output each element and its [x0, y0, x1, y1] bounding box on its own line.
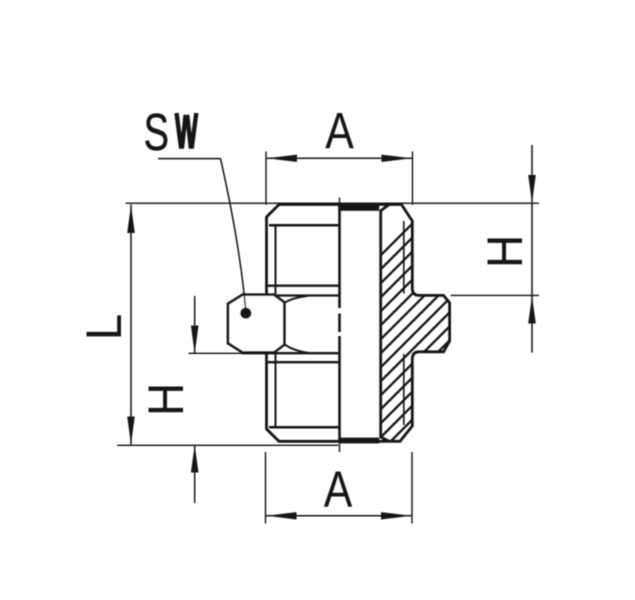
leader line from SW label [158, 159, 246, 311]
dimension H right: mid line [531, 204, 533, 296]
dimension A bottom: left arrow [266, 512, 296, 519]
dimension A bottom: right arrow [381, 512, 411, 519]
extension tick for H (y=353.3) [189, 352, 246, 354]
label SW [144, 103, 197, 161]
thick thread band bottom [339, 438, 379, 444]
inner hex corner vertical lower [275, 354, 277, 427]
thread minor line lower right [403, 354, 405, 425]
dimension A top: extension lines [265, 152, 267, 206]
svg-text:L: L [77, 314, 132, 340]
dimension H right: arm-top extension line [451, 294, 540, 296]
hatching of section [116, 190, 635, 520]
cone line upper outer [267, 285, 340, 287]
dimension H bottom-left: lower arrow and shaft [191, 445, 199, 473]
leader dot on SW boss [240, 308, 251, 319]
svg-text:A: A [325, 102, 354, 159]
inner hex corner vertical upper [275, 226, 277, 294]
dimension A top: right arrow [382, 155, 412, 162]
hex flat line upper [269, 224, 340, 227]
dimension H right: upper shaft and arrow [531, 145, 533, 204]
body outline (hex fitting with right stud arm) [267, 205, 450, 442]
dimension L: bottom arrow [127, 417, 135, 445]
thread minor line upper right [403, 221, 405, 294]
svg-text:H: H [478, 235, 533, 268]
section left boundary [381, 205, 389, 442]
svg-text:S: S [144, 103, 169, 161]
extension line top (L / H shared, y=203.2) [126, 202, 540, 204]
dimension H bottom-left: upper shaft and arrow [194, 296, 196, 353]
svg-text:A: A [324, 460, 353, 517]
hex/section boundary vertical line [338, 198, 341, 453]
dimension H right: lower arrow and shaft [528, 296, 536, 324]
cone curve upper [285, 296, 309, 303]
dimension L: top arrow [127, 205, 135, 233]
dimension L: dim line [130, 205, 132, 445]
cone line lower outer [267, 361, 340, 363]
cone curve lower [285, 344, 309, 353]
dimension A bottom: dim line [266, 515, 413, 517]
SW hex boss [228, 295, 284, 353]
dimension A top: left arrow [267, 155, 297, 162]
dimension A top: dim line [266, 157, 413, 159]
hex flat line lower [269, 426, 340, 429]
cone line lower inner [242, 352, 340, 354]
extension line bottom (L / H shared, y=445.3) [117, 444, 339, 446]
dimension A bottom: extension lines [265, 452, 267, 524]
svg-text:H: H [139, 383, 194, 416]
thick thread band top [339, 203, 379, 211]
cone line upper inner [242, 294, 340, 296]
